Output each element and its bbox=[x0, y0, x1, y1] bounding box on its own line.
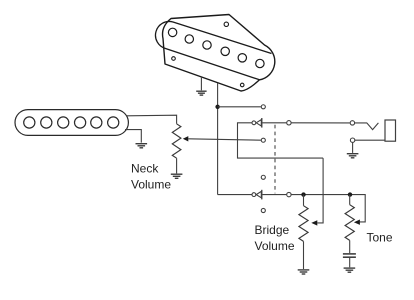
bridge pickup bbox=[155, 15, 274, 92]
ground output jack bbox=[347, 154, 359, 158]
potentiometer bridge volume resistive element bbox=[299, 206, 308, 242]
wire bridge hot to switch pole2 wiper bbox=[218, 194, 252, 196]
node junction bridge hot bbox=[215, 105, 219, 109]
bridge pickup baseplate bbox=[163, 15, 275, 92]
output jack body bbox=[385, 120, 396, 141]
wire bridge volume pot to ground bbox=[303, 241, 305, 269]
wire neck volume wiper to switch pole1 bottom contact bbox=[188, 139, 261, 140]
wire neck volume pot to ground bbox=[176, 158, 178, 173]
bridge pickup coil bbox=[155, 21, 271, 79]
bridge pickup screw holes bbox=[172, 22, 244, 87]
capacitor tone bbox=[343, 254, 356, 257]
switch gang dashed link bbox=[274, 125, 276, 194]
switch pole2 wiper bbox=[252, 190, 262, 200]
terminal circle jack sleeve bbox=[350, 138, 354, 142]
wire jack sleeve to ground bbox=[352, 143, 354, 153]
wire junction to switch pole1 top contact bbox=[218, 106, 261, 108]
ground neck pickup bbox=[136, 144, 148, 148]
wire neck pickup ground lead bbox=[125, 130, 141, 143]
wire switch pole2 wiper to pots bbox=[262, 195, 365, 222]
potentiometer neck volume resistive element bbox=[172, 124, 181, 158]
terminal circle pole2 output bbox=[287, 192, 291, 196]
switch pole1 wiper bbox=[252, 118, 262, 128]
potentiometer tone resistive element bbox=[345, 205, 354, 241]
neck pickup pole pieces bbox=[24, 117, 35, 128]
wire tone top lead bbox=[349, 195, 351, 205]
wire switch pole1 wiper to output jack tip bbox=[262, 122, 350, 124]
neck volume wiper arrow bbox=[183, 136, 189, 141]
neck pickup bbox=[15, 110, 128, 136]
terminal circle jack tip bbox=[350, 121, 354, 125]
wire jack sleeve to body bbox=[355, 139, 385, 141]
ground tone capacitor bbox=[344, 268, 356, 272]
ground bridge pickup bbox=[196, 91, 206, 95]
ground neck volume bbox=[171, 174, 183, 178]
switch pole2 bottom contact bbox=[261, 208, 265, 212]
terminal circle pole1 output bbox=[287, 121, 291, 125]
ground bridge volume bbox=[298, 270, 310, 274]
wire capacitor to ground bbox=[349, 258, 351, 267]
wire neck pickup hot to neck volume pot bbox=[127, 115, 177, 124]
switch pole2 top contact bbox=[261, 175, 265, 179]
svg-text:Volume: Volume bbox=[131, 178, 171, 192]
wire bridge volume top lead bbox=[303, 195, 305, 206]
switch pole1 top contact bbox=[261, 105, 265, 109]
switch pole1 bottom contact bbox=[261, 138, 265, 142]
wire jack tip to spring contact bbox=[355, 123, 379, 130]
tone wiper arrow bbox=[354, 220, 360, 225]
wire bridge volume wiper up to pole1 branch bbox=[317, 158, 323, 223]
wire tone pot to capacitor bbox=[349, 240, 351, 253]
node junction bridge volume top bbox=[301, 192, 305, 196]
wire switch pole1 wiper left branch bbox=[238, 123, 324, 158]
node junction tone top bbox=[348, 192, 352, 196]
bridge volume wiper arrow bbox=[311, 220, 317, 225]
wire bridge pickup hot lead down bbox=[217, 83, 219, 195]
svg-text:Neck: Neck bbox=[131, 162, 159, 176]
wire bridge pickup ground lead bbox=[200, 77, 202, 90]
svg-text:Volume: Volume bbox=[255, 239, 295, 253]
bridge pickup pole pieces bbox=[168, 28, 264, 67]
svg-text:Tone: Tone bbox=[367, 231, 393, 245]
svg-text:Bridge: Bridge bbox=[255, 223, 290, 237]
